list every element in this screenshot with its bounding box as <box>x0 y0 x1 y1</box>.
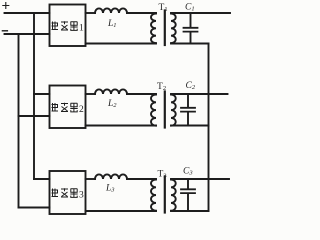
transformer T3 primary winding <box>151 180 156 211</box>
transformer T3 secondary winding <box>171 180 176 211</box>
capacitor C3 plates <box>181 189 195 193</box>
wire T2 secondary bottom to series bus <box>171 125 209 127</box>
capacitor C1 top lead <box>190 13 192 27</box>
transformer T1 core <box>164 11 166 46</box>
wire negative bus vertical <box>18 34 20 208</box>
wire L1 to transformer T1 primary <box>127 12 156 14</box>
svg-text:2: 2 <box>79 105 84 115</box>
label 逆变器3 inside inverter U3 <box>52 188 78 197</box>
wire - terminal to inverter 1 bottom input <box>5 33 50 35</box>
inverter U2 box <box>50 86 86 129</box>
wire inverter 3 bottom output to T3 primary <box>86 210 157 212</box>
svg-text:3: 3 <box>79 190 84 200</box>
wire inverter 1 bottom output to T1 primary <box>86 43 157 45</box>
wire + terminal to inverter 1 top input <box>5 12 50 14</box>
DC plus terminal label <box>3 3 9 9</box>
transformer T3 core <box>164 177 166 213</box>
wire T2 secondary top output tap <box>171 93 228 95</box>
wire T3 secondary top output tap <box>171 178 229 180</box>
label 逆变器2 inside inverter U2 <box>52 103 78 112</box>
transformer T2 primary winding <box>151 95 156 126</box>
capacitor C1 plates <box>184 28 198 32</box>
inverter U3 box <box>50 171 86 214</box>
transformer T2 core <box>164 92 166 128</box>
wire T1 secondary bottom to series bus <box>171 43 209 45</box>
wire inverter 1 top output to L1 <box>86 12 96 14</box>
capacitor C3 bottom lead <box>187 194 189 211</box>
inductor L3 <box>95 174 127 179</box>
wire inverter 2 bottom output to T2 primary <box>86 125 157 127</box>
svg-text:1: 1 <box>79 23 84 33</box>
capacitor C1 bottom lead <box>190 32 192 43</box>
capacitor C3 top lead <box>187 179 189 189</box>
wire L3 to transformer T3 primary <box>127 178 156 180</box>
wire positive bus to inverter 3 top input <box>34 178 50 180</box>
wire negative bus to inverter 2 bottom input <box>19 115 50 117</box>
inductor L2 <box>95 89 127 94</box>
capacitor C2 top lead <box>187 94 189 107</box>
wire inverter 2 top output to L2 <box>86 93 96 95</box>
wire T3 secondary bottom to series bus <box>171 210 209 212</box>
wire positive bus to inverter 2 top input <box>34 93 50 95</box>
transformer T1 secondary winding <box>171 14 176 44</box>
transformer T2 secondary winding <box>171 95 176 126</box>
capacitor C2 plates <box>181 108 195 112</box>
wire negative bus to inverter 3 bottom input <box>19 207 50 209</box>
capacitor C2 bottom lead <box>187 112 189 125</box>
wire positive bus vertical <box>33 13 35 179</box>
wire T1 secondary top to right output terminal <box>171 12 230 14</box>
wire L2 to transformer T2 primary <box>127 93 156 95</box>
transformer T1 primary winding <box>151 14 156 44</box>
label 逆变器1 inside inverter U1 <box>52 21 78 30</box>
inverter U1 box <box>50 5 86 47</box>
wire inverter 3 top output to L3 <box>86 178 96 180</box>
inductor L1 <box>95 8 127 13</box>
DC minus terminal label <box>2 30 7 32</box>
wire series bus vertical <box>208 44 210 212</box>
